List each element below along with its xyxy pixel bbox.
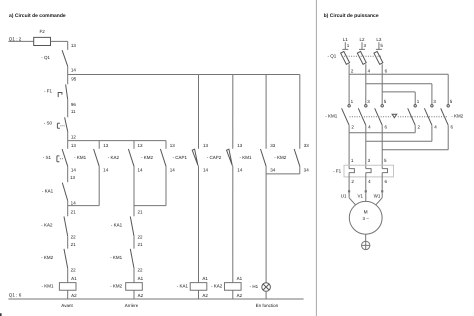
svg-text:13: 13 bbox=[203, 143, 209, 148]
svg-text:- F1: - F1 bbox=[333, 169, 341, 174]
svg-text:- KA2: - KA2 bbox=[211, 284, 223, 289]
svg-text:Arrière: Arrière bbox=[125, 303, 139, 308]
svg-text:14: 14 bbox=[237, 168, 243, 173]
svg-text:- CAP1: - CAP1 bbox=[172, 155, 187, 160]
svg-text:- Q1: - Q1 bbox=[41, 55, 50, 60]
svg-text:L2: L2 bbox=[359, 37, 365, 42]
svg-text:- KM2: - KM2 bbox=[451, 114, 463, 119]
svg-text:- F1: - F1 bbox=[44, 88, 52, 93]
svg-text:Q1 : 2: Q1 : 2 bbox=[9, 36, 22, 41]
svg-text:12: 12 bbox=[71, 135, 77, 140]
svg-text:- S0: - S0 bbox=[44, 120, 53, 125]
svg-text:A1: A1 bbox=[202, 276, 208, 281]
svg-text:A1: A1 bbox=[138, 276, 144, 281]
svg-text:- KM1: - KM1 bbox=[74, 155, 86, 160]
svg-text:- KM1: - KM1 bbox=[41, 284, 53, 289]
svg-text:14: 14 bbox=[103, 168, 109, 173]
svg-text:- KM1: - KM1 bbox=[239, 155, 251, 160]
svg-text:A2: A2 bbox=[202, 293, 208, 298]
svg-text:33: 33 bbox=[270, 143, 276, 148]
svg-text:14: 14 bbox=[71, 168, 77, 173]
svg-text:13: 13 bbox=[237, 143, 243, 148]
svg-text:- CAP2: - CAP2 bbox=[207, 155, 222, 160]
svg-text:M: M bbox=[364, 209, 368, 215]
svg-text:- KM1: - KM1 bbox=[325, 114, 337, 119]
svg-text:21: 21 bbox=[71, 242, 77, 247]
svg-text:14: 14 bbox=[71, 200, 77, 205]
svg-text:A2: A2 bbox=[71, 293, 77, 298]
svg-text:21: 21 bbox=[137, 209, 143, 214]
svg-text:22: 22 bbox=[137, 267, 143, 272]
svg-text:V1: V1 bbox=[358, 194, 364, 199]
svg-text:22: 22 bbox=[71, 234, 77, 239]
svg-text:34: 34 bbox=[270, 168, 276, 173]
svg-text:13: 13 bbox=[170, 143, 176, 148]
svg-text:34: 34 bbox=[304, 168, 310, 173]
svg-text:96: 96 bbox=[71, 102, 77, 107]
svg-text:3 ~: 3 ~ bbox=[363, 216, 370, 221]
svg-text:- H1: - H1 bbox=[250, 284, 259, 289]
svg-text:33: 33 bbox=[304, 143, 310, 148]
svg-text:- S1: - S1 bbox=[43, 155, 52, 160]
svg-text:En fonction: En fonction bbox=[256, 303, 279, 308]
svg-text:Avant: Avant bbox=[61, 303, 73, 308]
svg-text:21: 21 bbox=[137, 242, 143, 247]
svg-text:- KA2: - KA2 bbox=[41, 222, 53, 227]
svg-text:U1: U1 bbox=[341, 194, 347, 199]
svg-text:22: 22 bbox=[137, 234, 143, 239]
svg-text:- KM2: - KM2 bbox=[274, 155, 286, 160]
svg-text:95: 95 bbox=[71, 76, 77, 81]
svg-text:W1: W1 bbox=[374, 194, 381, 199]
svg-text:Q1 : 6: Q1 : 6 bbox=[9, 293, 22, 298]
svg-text:F2: F2 bbox=[39, 29, 45, 34]
svg-text:21: 21 bbox=[71, 209, 77, 214]
svg-text:- KM1: - KM1 bbox=[110, 255, 122, 260]
svg-text:14: 14 bbox=[71, 68, 77, 73]
svg-text:- KM2: - KM2 bbox=[41, 255, 53, 260]
svg-text:13: 13 bbox=[103, 143, 109, 148]
svg-text:A2: A2 bbox=[138, 293, 144, 298]
svg-text:- KA1: - KA1 bbox=[111, 222, 123, 227]
svg-text:14: 14 bbox=[170, 168, 176, 173]
svg-text:14: 14 bbox=[203, 168, 209, 173]
svg-text:14: 14 bbox=[137, 168, 143, 173]
svg-text:A1: A1 bbox=[71, 276, 77, 281]
svg-text:- KA1: - KA1 bbox=[42, 188, 54, 193]
svg-text:L1: L1 bbox=[343, 37, 349, 42]
svg-text:11: 11 bbox=[71, 109, 76, 114]
svg-text:- KA2: - KA2 bbox=[108, 155, 120, 160]
svg-text:- Q1: - Q1 bbox=[328, 54, 337, 59]
svg-text:- KA1: - KA1 bbox=[177, 284, 189, 289]
svg-text:22: 22 bbox=[71, 267, 77, 272]
svg-text:13: 13 bbox=[138, 143, 144, 148]
svg-text:L3: L3 bbox=[376, 37, 382, 42]
svg-text:A2: A2 bbox=[237, 293, 243, 298]
svg-text:13: 13 bbox=[70, 175, 76, 180]
svg-text:- KM2: - KM2 bbox=[110, 284, 122, 289]
svg-text:13: 13 bbox=[71, 143, 77, 148]
svg-text:b) Circuit de puissance: b) Circuit de puissance bbox=[324, 13, 379, 19]
svg-text:A1: A1 bbox=[237, 276, 243, 281]
svg-text:- KM2: - KM2 bbox=[141, 155, 153, 160]
svg-text:a) Circuit de commande: a) Circuit de commande bbox=[9, 13, 66, 19]
svg-text:13: 13 bbox=[71, 43, 77, 48]
